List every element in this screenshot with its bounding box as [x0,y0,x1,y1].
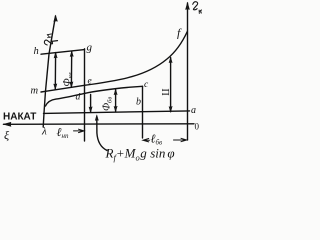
curve lambda-d-c force [46,86,143,106]
svg-text:b: b [136,97,141,108]
dimension line left inner [54,53,56,90]
svg-text:a: a [191,105,196,116]
dimension arrow up P [169,57,172,63]
label F_nl rotated [62,72,74,86]
svg-text:ξ: ξ [4,128,10,142]
svg-text:h: h [34,46,39,57]
axis right arrowhead [186,3,190,10]
label v_k cursive [193,2,202,14]
tick above dimension [52,40,58,43]
axis left z_n [43,16,55,127]
dimension arrow l_bv right [174,138,187,141]
dimension arrow up left inner [54,52,57,58]
dimension line P [170,58,172,112]
dimension arrow down F_nl [70,82,73,88]
label P rotated [159,89,170,96]
svg-text:λ: λ [41,126,47,138]
svg-text:НАКАТ: НАКАТ [3,112,36,123]
curve m-e-f velocity [41,32,187,93]
dimension line F_nl [70,51,72,87]
svg-text:Фбв: Фбв [102,97,114,111]
svg-text:g: g [87,42,93,54]
line h-g [41,50,85,55]
dimension line F_bv [115,90,117,112]
label z_n rotated cursive [44,34,53,45]
svg-text:0: 0 [195,122,200,132]
dimension arrow up F_bv [114,89,117,95]
baseline a-b [44,111,190,114]
label F_bv rotated [102,97,114,111]
dimension arrow up F_nl [70,51,73,57]
dimension arrow down F_bv [114,106,117,112]
svg-text:ℓнп: ℓнп [57,125,69,140]
svg-text:c: c [144,80,149,90]
svg-text:Фнл: Фнл [62,72,74,86]
svg-text:П: П [159,89,170,96]
axis left arrowhead [54,16,58,22]
leader R_f arrow [97,118,107,151]
dimension arrow l_bv left [143,139,150,142]
dimension arrow down P [169,106,172,112]
svg-text:m: m [31,86,39,97]
abscissa left arrowhead [4,122,12,126]
dimension line small left [90,95,92,113]
dimension arrow down small left [89,107,92,113]
svg-text:d: d [76,93,81,103]
svg-text:Rf+Mogsinφ: Rf+Mogsinφ [105,146,175,163]
axis abscissa [4,123,195,126]
svg-text:e: e [88,77,92,87]
dimension arrow l_np [74,129,85,132]
svg-text:f: f [177,26,182,40]
line g-e-d vertical [84,49,86,141]
svg-text:ℓбв: ℓбв [151,132,163,147]
axis right v_k [187,3,189,140]
line c-b vertical [142,86,144,138]
leader R_f arrowhead [95,115,98,121]
dimension arrow down left inner [54,84,57,90]
